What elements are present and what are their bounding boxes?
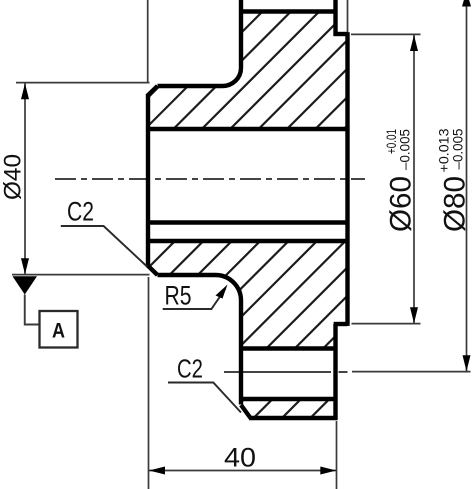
D80 dimension line	[466, 1, 468, 372]
datum triangle	[13, 276, 38, 294]
chamfer label C2 lower	[168, 354, 241, 413]
svg-text:–0.005: –0.005	[451, 129, 466, 170]
datum stem	[25, 295, 39, 325]
datum A symbol	[13, 276, 78, 347]
svg-text:–0.005: –0.005	[398, 129, 413, 170]
dimension D60	[351, 34, 421, 323]
40 extension left	[148, 277, 150, 489]
main axis centerline	[55, 178, 365, 180]
svg-text:Ø80: Ø80	[439, 176, 472, 232]
svg-text:C2: C2	[177, 354, 203, 384]
svg-text:A: A	[52, 320, 65, 343]
D40 extension top	[16, 82, 150, 84]
dimension 40 length	[149, 277, 337, 489]
part outline	[147, 0, 347, 420]
spigot step bottom	[334, 322, 348, 326]
flange right face upper	[333, 0, 337, 36]
D60 extension top	[351, 33, 421, 35]
bolt hole top wall	[239, 346, 337, 350]
dimension D40	[12, 83, 150, 275]
svg-text:+0.013: +0.013	[437, 129, 452, 173]
svg-text:Ø40: Ø40	[0, 154, 27, 200]
D80 text with tolerance	[437, 129, 472, 233]
40 arrow right	[320, 467, 336, 475]
C2 lower leader	[168, 383, 241, 413]
svg-text:Ø60: Ø60	[385, 176, 418, 232]
D40 arrow down	[21, 258, 29, 274]
radius label R5	[163, 281, 228, 311]
bore top line	[148, 127, 348, 131]
flange left face upper + fillet to boss top	[158, 0, 242, 86]
top bolt hole bottom wall	[239, 9, 337, 13]
datum frame box	[40, 311, 78, 348]
D60 text with tolerance	[384, 129, 418, 232]
dimension D80 bolt circle	[352, 1, 471, 372]
svg-text:C2: C2	[67, 197, 94, 227]
boss bottom face + fillet R5 + flange left face lower	[158, 275, 242, 405]
D60 extension bottom	[352, 323, 421, 325]
spigot step top	[334, 32, 348, 36]
flange right face lower	[333, 324, 337, 420]
svg-text:R5: R5	[165, 281, 192, 311]
R5 arrowhead	[216, 285, 228, 299]
bolt hole bottom wall	[239, 397, 337, 401]
D80 extension bottom (bolt hole centerline extension)	[352, 371, 471, 373]
D40 extension bottom	[12, 274, 150, 276]
D40 dimension line	[24, 83, 26, 274]
flange OD chamfer C2	[241, 405, 251, 418]
D60 arrow down	[410, 307, 418, 323]
boss bottom-left chamfer C2	[147, 265, 157, 275]
svg-text:40: 40	[224, 443, 256, 473]
boss left face	[146, 94, 150, 267]
thin extension lines above part	[148, 0, 348, 83]
boss top-left chamfer C2	[147, 86, 157, 96]
left face extension up	[147, 0, 149, 83]
40 arrow left	[149, 467, 165, 475]
D60 dimension line	[413, 35, 415, 324]
D80 arrow up	[462, 0, 471, 7]
40 dimension line	[149, 470, 337, 472]
bore bottom line	[148, 220, 348, 224]
chamfer label C2 upper	[61, 197, 147, 267]
bolt hole centerline	[224, 371, 348, 373]
spigot face extension up	[347, 0, 349, 32]
spigot right face	[345, 32, 349, 326]
R5 leader	[163, 289, 226, 310]
40 extension right	[336, 421, 338, 489]
D40 arrow up	[21, 83, 29, 99]
D80 arrow down	[463, 355, 471, 371]
flange OD face	[249, 416, 337, 420]
D60 arrow up	[410, 35, 418, 51]
C2 upper leader	[61, 226, 147, 267]
keyway bottom line	[148, 239, 348, 243]
